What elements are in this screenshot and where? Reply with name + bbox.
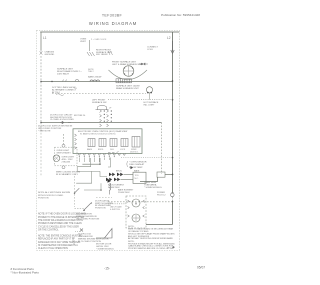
svg-text:WIRING DIAGRAM: WIRING DIAGRAM [89,21,137,26]
wire sensor to bus [165,174,173,176]
L2 disconnect symbol [171,193,175,197]
svg-text:POSITION: POSITION [38,197,49,199]
junction L2 row3 [172,157,174,159]
connector mark mid [131,166,134,169]
wire EOC drop left [108,158,111,168]
svg-text:REPLACED IF ANY PART OF IT IS: REPLACED IF ANY PART OF IT IS [38,238,75,241]
svg-text:BAKE: BAKE [87,148,93,151]
svg-text:NOTE: ALL SWITCHES SHOWN: NOTE: ALL SWITCHES SHOWN [38,191,71,194]
svg-text:POSITION: POSITION [95,208,106,210]
junction TB row [51,81,52,82]
bake element symbol [90,80,100,82]
svg-text:* SEE NOTE: * SEE NOTE [38,130,51,132]
svg-text:HOT SURFACE: HOT SURFACE [144,101,159,104]
arc under switch [109,70,148,80]
svg-text:BROIL: BROIL [98,149,104,151]
connector pair marks [139,63,148,65]
svg-text:240V EACH: 240V EACH [57,72,69,75]
wire surface-unit row [41,81,173,83]
svg-text:SW. 1800W: SW. 1800W [96,54,108,56]
svg-text:CLEAN CYCLE OPERATION: CLEAN CYCLE OPERATION [38,247,68,250]
ptc marks bottom [72,238,75,244]
element coil [109,183,110,190]
latch motor switch [74,176,76,207]
svg-text:* Non-Illustrated Parts: * Non-Illustrated Parts [11,270,40,274]
EOC pin drop wires [79,158,109,163]
junction L2 row1 [172,80,174,82]
svg-text:05/07: 05/07 [197,266,205,270]
relay contact marks right of EOC [108,151,119,153]
svg-text:PLUNGER SW: PLUNGER SW [78,236,94,238]
svg-text:NOTE: IF THE OVEN DOOR IS LOCK: NOTE: IF THE OVEN DOOR IS LOCKED AND [38,213,86,216]
dashed drop from row y122 [161,123,163,175]
svg-text:LEFT & REAR SURFACE UNIT: LEFT & REAR SURFACE UNIT [112,63,143,66]
dashed row y201 [108,201,173,203]
tod box [133,172,146,183]
broil relay [99,139,106,147]
latch relay [121,139,128,147]
svg-text:N.C.: N.C. [135,178,139,180]
svg-text:L1: L1 [43,36,47,40]
wires diamonds to tod box [124,173,134,175]
connector strip above EOC [100,110,109,127]
svg-text:TOD: TOD [135,175,140,177]
latch cam [132,214,140,222]
svg-text:CHASSIS: CHASSIS [45,51,55,54]
svg-text:THE DOOR WILL REMAIN LOCKED UN: THE DOOR WILL REMAIN LOCKED UNTIL [38,219,84,222]
svg-text:BAKE 2350W: BAKE 2350W [88,76,102,79]
svg-text:IS OVERHEATED OR DAMAGED IN A: IS OVERHEATED OR DAMAGED IN A [38,244,78,247]
dotted row y99 [108,99,173,101]
dotted row to latch box [108,203,126,205]
switch marks left [108,51,113,55]
svg-text:IND. LIGHT: IND. LIGHT [144,105,156,107]
svg-text:LOCK: LOCK [120,149,126,151]
latch box pins [128,200,145,217]
svg-text:COLD: COLD [147,49,153,51]
junction L2 row4 [172,174,174,176]
svg-text:SWITCH ASSY: SWITCH ASSY [57,151,72,154]
staircase wires [82,163,100,165]
oven light dashed enclosure [55,147,78,166]
wire L1 top bus [40,31,179,33]
svg-text:AFTER ANY SERVICING DRESS WIRE: AFTER ANY SERVICING DRESS WIRES AWAY [128,237,173,240]
main row y122 wire [41,122,162,124]
arrows on row y122 [60,121,71,124]
indicator light symbol [146,87,152,93]
grommet top [62,144,65,147]
broil element arrow [108,179,112,183]
electronic oven control box [73,129,142,154]
oven light branch wire [63,134,65,144]
svg-text:MOTOR DL: MOTOR DL [74,115,86,117]
svg-text:2 + 3 HR CLOCK: 2 + 3 HR CLOCK [91,39,107,41]
svg-text:* SOME MODELS: * SOME MODELS [144,187,162,189]
dlb relay [110,139,117,147]
svg-text:Publication No: 5995441428: Publication No: 5995441428 [161,13,200,17]
svg-text:SURFACE SW: SURFACE SW [92,101,107,104]
transformer [132,137,140,148]
x mark [80,229,83,232]
meat probe text [126,161,129,167]
svg-text:TEF303BF: TEF303BF [102,13,123,17]
svg-text:IN SCHEMATIC ONLY: IN SCHEMATIC ONLY [56,173,78,176]
connector arrow on L2 [171,41,174,54]
grommet bottom [62,166,65,169]
svg-text:ELECTRONIC OVEN CONTROL (EOC): ELECTRONIC OVEN CONTROL (EOC) REAR VIEW [78,130,127,133]
oven light lamp [53,155,60,162]
svg-text:GROUND: GROUND [45,54,55,56]
svg-text:* SOME MODELS: * SOME MODELS [96,248,114,250]
svg-text:OR THE CONTROL: OR THE CONTROL [38,230,59,232]
fuse marks on row y81 [62,80,79,82]
wire L1 left bus [40,32,42,50]
dashed alternate row y93 [52,93,146,95]
infinite switch circle [123,66,134,77]
dashes top right of latch text [96,197,112,199]
EOC left pins [75,134,77,149]
L2 lower segment [172,197,174,202]
bake broil connector diamonds [109,173,115,177]
latch motor box [126,196,146,228]
chassis triangle [105,229,113,239]
svg-text:2500W 240V: 2500W 240V [118,192,130,194]
wire L2 right bus [172,32,174,193]
svg-text:K1 BAKE K2 BROIL K3 DLB: K1 BAKE K2 BROIL K3 DLB K4 CONV K5 [80,133,116,136]
surface element hatched [116,79,132,83]
junction L1 row [40,81,41,82]
wire sensor down-left [140,177,158,181]
svg-text:L2: L2 [167,36,171,40]
svg-text:1080 OHMS AT: 1080 OHMS AT [129,163,145,166]
junction L2 row2 [172,99,174,101]
svg-text:VENT: VENT [80,41,86,43]
svg-text:POWER IS RESTORED AND THE CLEA: POWER IS RESTORED AND THE CLEAN [38,222,82,225]
svg-text:NOTE: THE ENTIRE CONSOLE MUST: NOTE: THE ENTIRE CONSOLE MUST BE [38,235,82,237]
chassis ground symbol on L1 [40,50,43,55]
EOC bottom pins [78,154,126,156]
svg-text:DLB N.O.: DLB N.O. [130,151,139,153]
interlock switch [75,188,80,193]
sensor box [157,172,165,177]
svg-text:POWER TO THE RANGE IS INTERRUP: POWER TO THE RANGE IS INTERRUPTED [38,216,85,219]
svg-text:2 BULBS: 2 BULBS [62,161,71,163]
svg-text:-15-: -15- [104,267,110,271]
svg-text:& SWITCH: & SWITCH [110,209,120,211]
latch motor [132,199,140,207]
bottom right L2 arrow [172,246,175,248]
svg-text:BAKE: BAKE [134,170,140,173]
svg-text:CYCLE IS CANCELLED BY THE USER: CYCLE IS CANCELLED BY THE USER [38,225,79,228]
switch RF contacts [87,52,95,56]
wire drop to RF switch [88,40,90,51]
TB squiggle [56,94,64,96]
svg-text:AT TB-2: AT TB-2 [52,91,61,94]
svg-text:THE 2: THE 2 [88,71,95,73]
svg-text:REAR SURFACE UNIT: REAR SURFACE UNIT [116,87,139,90]
bake relay [88,139,95,147]
svg-text:BROIL: BROIL [116,171,123,173]
dotted row y157 [121,157,173,159]
page dashed border [37,30,180,250]
svg-text:PLUG L2: PLUG L2 [157,195,166,197]
